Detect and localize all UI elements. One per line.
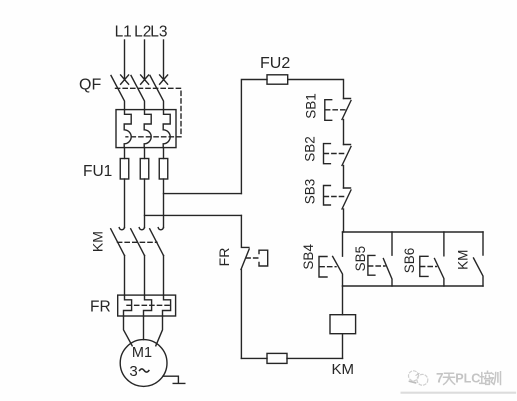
wire L1 incoming: [124, 40, 126, 80]
wire bus to coil: [342, 286, 344, 315]
pushbutton SB5 cap bracket: [368, 255, 375, 275]
pushbutton SB5 NO contact: [383, 232, 392, 286]
pushbutton SB4 NO contact: [333, 232, 343, 286]
wire branch L2 to control left rail: [145, 214, 242, 216]
motor M1 circle: [120, 340, 167, 387]
pushbutton SB2 cap bracket: [324, 144, 331, 164]
wire coil to bottom: [342, 334, 344, 359]
wire pole3 FR to motor: [156, 316, 163, 346]
coil KM body: [330, 315, 356, 334]
fuse FU2 body: [267, 75, 288, 84]
breaker QF trip unit box: [116, 110, 176, 148]
svg-text:SB3: SB3: [302, 179, 317, 205]
wire pole1 box to fuse: [124, 148, 126, 159]
fuse FU1 pole1 body: [120, 159, 129, 180]
wire pole3 KM to FR: [163, 256, 165, 296]
overload relay FR pole3 heater: [163, 295, 171, 316]
wire top parallel bus: [343, 231, 484, 233]
pushbutton SB6 NO contact: [435, 232, 444, 286]
pushbutton SB1 cap bracket: [325, 100, 332, 121]
wire bottom parallel bus: [343, 285, 484, 287]
motor M1 tilde mark: [140, 369, 149, 372]
contactor KM pole2 contact arc: [139, 228, 144, 230]
breaker QF pole1 blade: [111, 76, 125, 110]
glyph xun: [491, 372, 501, 385]
overload relay FR linkage dashed: [127, 304, 170, 306]
breaker QF pole3 X terminal: [160, 75, 168, 84]
pushbutton SB6 cap bracket: [420, 256, 428, 276]
glyph pei: [480, 371, 491, 384]
svg-text:SB5: SB5: [353, 246, 368, 272]
pushbutton SB1 NC contact: [342, 99, 351, 120]
svg-text:FR: FR: [216, 248, 232, 267]
overload relay FR heater box: [118, 295, 176, 316]
breaker QF pole1 trip element: [124, 110, 131, 148]
wire pole2 box to fuse: [144, 148, 146, 159]
svg-text:FR: FR: [90, 299, 111, 316]
wire bottom return right: [287, 357, 343, 359]
svg-text:7: 7: [436, 371, 444, 386]
wire L2 incoming: [144, 40, 146, 80]
contactor KM aux NO contact: [474, 232, 484, 286]
svg-text:L1: L1: [115, 24, 132, 41]
contactor KM pole1 contact arc: [119, 228, 124, 230]
breaker QF pole2 blade: [131, 76, 145, 110]
pushbutton SB6 link dashed: [421, 266, 437, 268]
contactor KM linkage dashed: [118, 241, 158, 243]
svg-text:3: 3: [129, 363, 137, 380]
breaker QF pole2 X terminal: [141, 75, 149, 84]
svg-text:SB6: SB6: [402, 248, 417, 274]
wire pole1 fuse to KM contact: [124, 179, 126, 228]
svg-text:M1: M1: [132, 345, 152, 361]
pushbutton SB4 cap bracket: [319, 257, 327, 278]
svg-text:KM: KM: [332, 361, 355, 378]
relay FR trip symbol: [259, 250, 268, 266]
overload relay FR pole2 heater: [144, 295, 152, 316]
pushbutton SB2 link dashed: [324, 153, 346, 155]
fuse bottom body: [267, 353, 287, 363]
svg-text:KM: KM: [90, 231, 106, 252]
svg-text:PLC: PLC: [455, 372, 480, 386]
pushbutton SB3 cap bracket: [324, 186, 331, 206]
wire bottom return left: [241, 357, 267, 359]
wire control left rail up to FU2 line: [241, 80, 267, 194]
svg-text:SB4: SB4: [301, 244, 316, 270]
pushbutton SB5 link dashed: [369, 265, 386, 267]
ground symbol: [163, 376, 185, 383]
wire pole3 box to fuse: [163, 148, 165, 159]
fuse FU1 pole2 body: [140, 159, 149, 180]
wire SB1 to SB2: [343, 120, 345, 145]
relay contact FR link dashed: [246, 257, 259, 259]
breaker QF pole1 X terminal: [121, 75, 129, 84]
wire branch L3 to control FU2: [164, 193, 242, 195]
svg-text:QF: QF: [79, 77, 101, 94]
svg-text:L2: L2: [134, 24, 151, 41]
fuse FU1 pole3 body: [159, 159, 168, 180]
contactor KM pole3 blade: [150, 229, 164, 256]
breaker QF pole2 trip element: [144, 110, 151, 148]
wire pole1 KM to FR: [124, 256, 126, 296]
wire SB2 to SB3: [343, 166, 345, 189]
wire L3 incoming: [163, 40, 165, 80]
glyph tian: [444, 373, 455, 384]
wire pole2 KM to FR: [144, 256, 146, 296]
pushbutton SB1 link dashed: [326, 109, 348, 111]
breaker QF linkage dashed: [116, 88, 182, 137]
pushbutton SB2 NC contact: [342, 145, 351, 166]
wire SB3 to parallel bus: [343, 209, 345, 232]
pushbutton SB4 link dashed: [320, 266, 336, 268]
wire pole3 fuse to KM contact: [163, 179, 165, 228]
wire left rail lower: [240, 270, 242, 359]
svg-text:SB1: SB1: [303, 93, 318, 119]
svg-text:KM: KM: [456, 250, 471, 270]
watermark logo: [409, 371, 428, 385]
wire FU2 to right rail: [288, 80, 344, 99]
contactor KM pole2 blade: [131, 229, 145, 256]
pushbutton SB3 NC contact: [342, 188, 351, 209]
wire pole1 FR to motor: [124, 316, 133, 346]
pushbutton SB3 link dashed: [324, 196, 346, 198]
overload relay FR pole1 heater: [124, 295, 132, 316]
svg-text:FU2: FU2: [260, 55, 290, 72]
breaker QF pole3 blade: [150, 76, 164, 110]
svg-text:L3: L3: [150, 24, 167, 41]
contactor KM pole1 blade: [111, 229, 125, 256]
breaker QF pole3 trip element: [163, 110, 170, 148]
svg-text:FU1: FU1: [83, 163, 112, 180]
wire pole2 FR to motor: [143, 316, 145, 340]
watermark text 7天PLC培训: [436, 371, 501, 386]
svg-text:SB2: SB2: [302, 136, 317, 162]
wire pole2 fuse to KM contact: [144, 179, 146, 228]
contactor KM pole3 contact arc: [158, 228, 163, 230]
relay contact FR NC: [241, 215, 249, 269]
watermark underline: [402, 392, 515, 394]
